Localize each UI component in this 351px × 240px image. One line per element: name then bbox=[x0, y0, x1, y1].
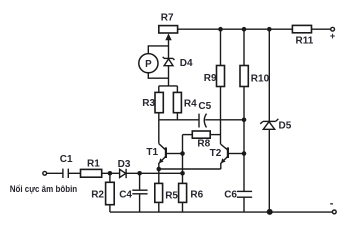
capacitor C1 bbox=[60, 154, 73, 178]
wire R8 right to R9 column bbox=[210, 134, 220, 136]
resistor R9 bbox=[204, 29, 225, 86]
wire T1 base column bbox=[182, 135, 184, 184]
svg-text:P: P bbox=[145, 59, 152, 70]
wire R3-R4 top link bbox=[159, 85, 178, 87]
resistor R1 bbox=[81, 158, 102, 177]
node T1 emitter bbox=[157, 167, 162, 172]
wire C1 to R1 bbox=[68, 172, 80, 174]
wire R8 left bbox=[183, 134, 193, 136]
node D3-C4 bbox=[137, 171, 142, 176]
wire D5 column upper bbox=[268, 29, 270, 121]
wire top rail bbox=[178, 28, 293, 30]
svg-text:T2: T2 bbox=[210, 148, 222, 159]
svg-text:R5: R5 bbox=[165, 191, 178, 202]
wire R10 column bbox=[243, 29, 245, 191]
terminal minus bbox=[330, 198, 336, 214]
transistor T2 bbox=[210, 144, 244, 169]
wire input to C1 bbox=[47, 172, 63, 174]
svg-text:R11: R11 bbox=[296, 36, 314, 47]
resistor R2 bbox=[91, 173, 114, 212]
motor P bbox=[139, 54, 158, 73]
diode D3 bbox=[118, 159, 131, 178]
wire P branch bottom bbox=[148, 73, 168, 78]
wire emitter link bbox=[159, 168, 221, 170]
svg-text:D4: D4 bbox=[180, 58, 193, 69]
svg-text:R6: R6 bbox=[190, 189, 203, 200]
wire C5 to R10 column bbox=[205, 119, 244, 121]
resistor R7 bbox=[159, 13, 178, 33]
diode D4 (zener) bbox=[163, 57, 193, 69]
svg-text:R10: R10 bbox=[251, 74, 270, 85]
wire P branch top bbox=[148, 46, 168, 54]
svg-text:R1: R1 bbox=[87, 158, 100, 169]
node top rail R9 bbox=[218, 27, 223, 32]
node T2 collector lead bbox=[242, 151, 247, 156]
resistor R8 bbox=[192, 131, 210, 150]
svg-text:R9: R9 bbox=[204, 73, 217, 84]
svg-text:R3: R3 bbox=[142, 98, 155, 109]
resistor R3 bbox=[142, 86, 163, 113]
capacitor C6 bbox=[224, 189, 252, 212]
terminal plus bbox=[330, 27, 335, 41]
node top rail D5 bbox=[267, 27, 272, 32]
svg-text:C6: C6 bbox=[224, 189, 237, 200]
capacitor C5 bbox=[198, 101, 211, 128]
wire R11 to plus terminal bbox=[312, 28, 331, 30]
wiper arrow of R7 bbox=[165, 33, 171, 58]
svg-text:-: - bbox=[330, 198, 334, 210]
wire R9 bottom column bbox=[220, 87, 222, 145]
node top rail R10 bbox=[242, 27, 247, 32]
resistor R4 bbox=[173, 86, 197, 120]
svg-text:D3: D3 bbox=[118, 159, 131, 170]
svg-text:T1: T1 bbox=[146, 147, 158, 158]
diode D5 (zener) bbox=[260, 119, 292, 132]
node R1-R2 bbox=[108, 171, 113, 176]
resistor R11 bbox=[292, 25, 313, 46]
node bottom rail D5 bbox=[267, 209, 273, 215]
svg-text:+: + bbox=[330, 31, 335, 41]
svg-text:C1: C1 bbox=[60, 154, 73, 165]
wire R1 to D3 bbox=[102, 172, 120, 174]
svg-text:C5: C5 bbox=[198, 101, 211, 112]
wire bottom rail bbox=[110, 211, 333, 213]
capacitor C4 bbox=[119, 173, 147, 212]
svg-text:R4: R4 bbox=[184, 98, 197, 109]
resistor R5 bbox=[155, 169, 179, 212]
svg-text:C4: C4 bbox=[119, 190, 132, 201]
node R6 top bbox=[180, 171, 185, 176]
wire D4 column lower bbox=[168, 65, 170, 86]
transistor T1 bbox=[146, 120, 182, 169]
wire D3 to base node bbox=[126, 172, 182, 174]
resistor R6 bbox=[179, 183, 204, 212]
wire R3 bottom rail to C5 bbox=[159, 113, 199, 120]
svg-text:R2: R2 bbox=[91, 190, 104, 201]
svg-text:R7: R7 bbox=[161, 13, 174, 24]
node T1 base bbox=[180, 151, 185, 156]
resistor R10 bbox=[240, 66, 270, 87]
svg-text:D5: D5 bbox=[279, 121, 292, 132]
node C5-R10 bbox=[242, 118, 247, 123]
svg-text:Nối cực âm bôbin: Nối cực âm bôbin bbox=[10, 184, 78, 194]
terminal input bbox=[43, 171, 47, 175]
wire D5 column lower bbox=[268, 129, 270, 212]
